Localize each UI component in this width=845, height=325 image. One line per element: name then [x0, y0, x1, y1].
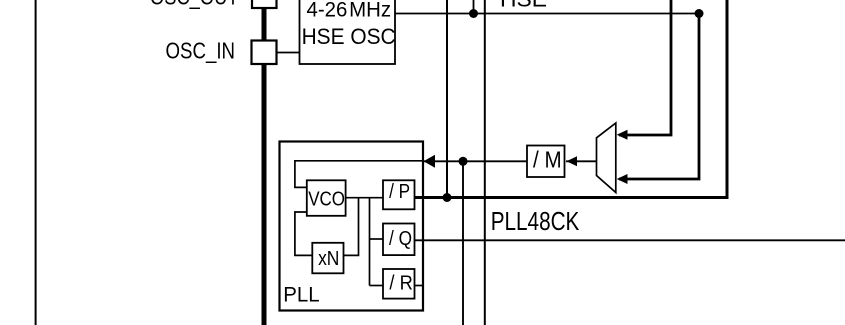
wire: HSE drop from junction, elbow to mux bottom input: [619, 14, 699, 180]
svg-text:PLL: PLL: [283, 283, 319, 307]
wire: thick crystal pin stem vertical: [262, 0, 267, 325]
svg-text:HSE OSC: HSE OSC: [302, 24, 396, 49]
VCO block: [307, 180, 346, 216]
wire: mux output to /M: [566, 160, 597, 162]
svg-text:xN: xN: [318, 248, 339, 270]
svg-text:/ M: / M: [533, 147, 562, 173]
wire: VCO output to dividers: [346, 197, 383, 199]
wire: xN up-leg to VCO output line: [344, 198, 359, 256]
wire: bus branch to /Q: [370, 238, 384, 240]
junction on HSE line at HSE-to-mux drop: [695, 9, 704, 18]
pin pad OSC_OUT: [252, 0, 277, 8]
junction on PLL input line: [459, 157, 468, 166]
multiplier xN: [312, 243, 343, 273]
oscillator block HSE OSC (top cut off): [300, 0, 396, 64]
arrowhead into PLL: [424, 155, 436, 168]
wire: /R stub to PLL box edge: [415, 285, 424, 287]
svg-text:OSC_IN: OSC_IN: [166, 38, 236, 64]
wire: PLL input routing to VCO: [295, 161, 423, 188]
wire: /M output toward PLL: [424, 160, 527, 162]
wire: HSE output horizontal: [395, 13, 699, 15]
junction on PLLCLK line: [443, 193, 452, 202]
pin pad OSC_IN: [252, 41, 277, 65]
wire: HSI drop from top, elbow to mux top input: [619, 0, 671, 135]
wire: VCO feedback to xN: [295, 212, 312, 255]
arrowhead into mux top input: [617, 130, 628, 140]
divider /P: [383, 180, 415, 209]
svg-text:OSC_OUT: OSC_OUT: [150, 0, 239, 10]
divider /M: [527, 146, 565, 178]
wire: /P output PLLCLK thick, up at right: [415, 0, 728, 198]
junction on HSE line at stub: [469, 9, 478, 18]
svg-text:PLL48CK: PLL48CK: [491, 208, 580, 236]
wire: OSC_IN pad to HSE OSC box: [277, 52, 301, 54]
wire: /Q output PLL48CK to right edge: [415, 239, 845, 241]
svg-text:/ P: / P: [389, 180, 410, 203]
svg-text:4-26 MHz: 4-26 MHz: [307, 0, 392, 22]
wire: stub up from HSE line: [473, 0, 475, 14]
divider /R: [383, 269, 415, 299]
svg-text:/ Q: / Q: [389, 227, 412, 250]
svg-text:/ R: / R: [389, 272, 412, 295]
divider /Q: [383, 224, 415, 256]
wire: vertical from top to PLLCLK line: [446, 0, 448, 198]
PLL source mux: [597, 123, 616, 193]
svg-text:HSE: HSE: [500, 0, 547, 11]
svg-text:VCO: VCO: [308, 188, 345, 210]
arrowhead into /M: [567, 156, 578, 166]
wire: bus branch to /R: [370, 285, 384, 287]
wire: vertical from PLL-input junction to bottom: [462, 161, 464, 325]
wire: vertical full-height: [484, 0, 486, 325]
PLL block outline: [280, 142, 424, 311]
wire: divider bus vertical: [369, 198, 371, 286]
chip boundary left frame line: [35, 0, 37, 325]
arrowhead into mux bottom input: [617, 174, 628, 184]
